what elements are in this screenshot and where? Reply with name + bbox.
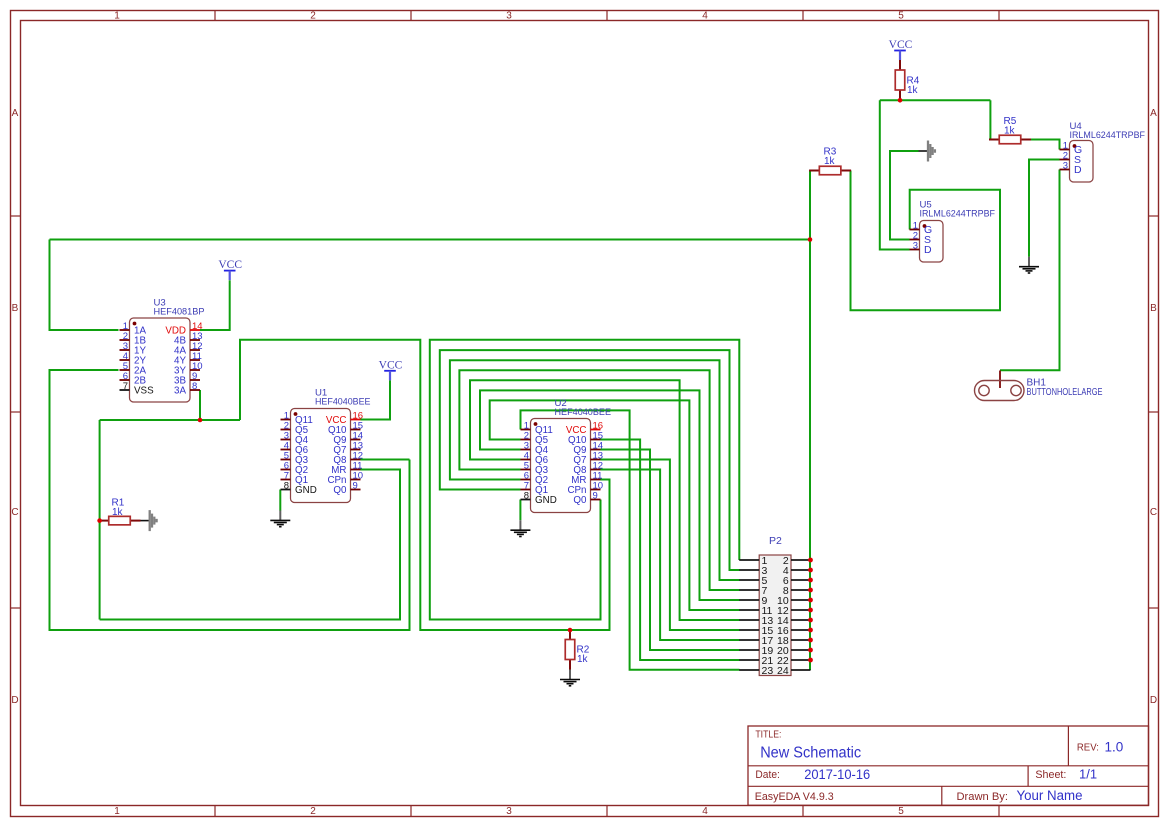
svg-text:TITLE:: TITLE: — [755, 730, 781, 741]
svg-text:BUTTONHOLELARGE: BUTTONHOLELARGE — [1027, 387, 1103, 398]
svg-text:9: 9 — [353, 480, 358, 491]
svg-text:8: 8 — [524, 490, 529, 501]
svg-text:Q0: Q0 — [333, 485, 347, 496]
svg-text:1k: 1k — [907, 85, 919, 96]
svg-text:P2: P2 — [769, 535, 782, 547]
svg-text:VCC: VCC — [889, 39, 913, 51]
svg-text:Drawn By:: Drawn By: — [957, 791, 1009, 803]
svg-text:1/1: 1/1 — [1079, 767, 1097, 782]
svg-text:C: C — [11, 507, 18, 518]
svg-text:D: D — [11, 695, 18, 706]
svg-text:8: 8 — [284, 480, 289, 491]
svg-text:REV:: REV: — [1077, 742, 1099, 754]
svg-text:A: A — [1150, 108, 1157, 119]
svg-text:23: 23 — [762, 665, 774, 677]
svg-text:1.0: 1.0 — [1105, 740, 1124, 755]
svg-text:2: 2 — [310, 806, 316, 817]
svg-text:Your Name: Your Name — [1017, 788, 1083, 803]
svg-text:1k: 1k — [112, 507, 124, 518]
svg-text:D: D — [1074, 164, 1082, 176]
svg-text:3: 3 — [506, 11, 512, 22]
svg-text:HEF4040BEE: HEF4040BEE — [555, 407, 612, 418]
svg-text:3: 3 — [1063, 160, 1068, 171]
svg-text:3: 3 — [913, 240, 918, 251]
svg-text:Sheet:: Sheet: — [1035, 769, 1066, 781]
svg-text:New Schematic: New Schematic — [760, 744, 861, 761]
svg-text:HEF4081BP: HEF4081BP — [154, 307, 205, 318]
svg-text:2: 2 — [310, 11, 316, 22]
svg-text:1: 1 — [114, 11, 120, 22]
svg-text:3A: 3A — [174, 385, 186, 396]
svg-text:1k: 1k — [824, 156, 836, 167]
svg-text:Q0: Q0 — [573, 495, 587, 506]
svg-text:5: 5 — [898, 806, 904, 817]
svg-text:B: B — [12, 303, 19, 314]
svg-text:D: D — [924, 244, 932, 256]
svg-text:24: 24 — [777, 665, 789, 677]
svg-text:4: 4 — [702, 11, 708, 22]
svg-text:VCC: VCC — [379, 359, 403, 371]
svg-text:GND: GND — [295, 485, 317, 496]
svg-text:9: 9 — [593, 490, 598, 501]
svg-text:1k: 1k — [1004, 125, 1016, 136]
svg-text:A: A — [12, 108, 19, 119]
svg-text:3: 3 — [506, 806, 512, 817]
svg-text:8: 8 — [192, 381, 197, 392]
svg-text:IRLML6244TRPBF: IRLML6244TRPBF — [1070, 130, 1146, 141]
svg-text:VCC: VCC — [218, 259, 242, 271]
svg-text:2017-10-16: 2017-10-16 — [804, 767, 870, 782]
svg-text:5: 5 — [898, 11, 904, 22]
svg-text:1k: 1k — [577, 654, 589, 665]
svg-text:1: 1 — [114, 806, 120, 817]
svg-text:C: C — [1150, 507, 1157, 518]
svg-text:EasyEDA V4.9.3: EasyEDA V4.9.3 — [755, 791, 834, 803]
svg-text:VSS: VSS — [134, 385, 154, 396]
svg-text:7: 7 — [123, 381, 128, 392]
svg-text:Date:: Date: — [755, 769, 780, 781]
svg-text:B: B — [1150, 303, 1157, 314]
svg-text:IRLML6244TRPBF: IRLML6244TRPBF — [920, 209, 996, 220]
svg-text:GND: GND — [535, 495, 557, 506]
svg-text:D: D — [1150, 695, 1157, 706]
svg-text:4: 4 — [702, 806, 708, 817]
svg-text:HEF4040BEE: HEF4040BEE — [315, 397, 371, 408]
